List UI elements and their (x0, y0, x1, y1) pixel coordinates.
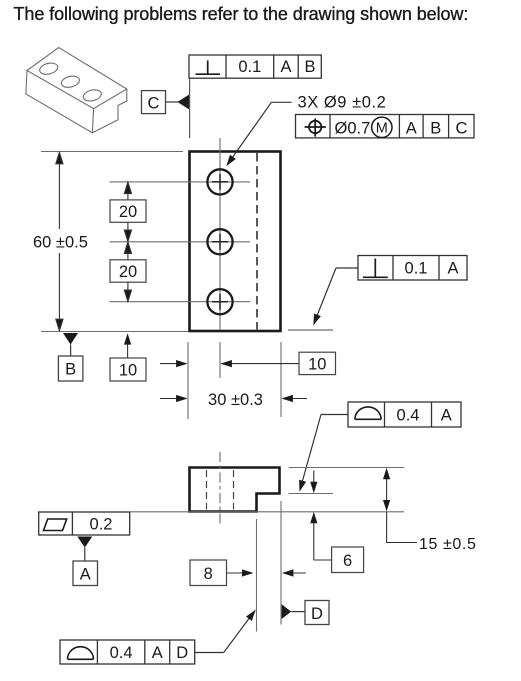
dimension 30 ±0.3 (160, 391, 307, 409)
hole 1 (207, 169, 232, 194)
dimension 20 (lower) box (110, 260, 146, 282)
bottom surface extension line (datum A) (130, 511, 404, 513)
svg-text:15 ±0.5: 15 ±0.5 (419, 536, 476, 553)
top surface extension line (289, 467, 404, 469)
dimension 6 step-height arrows (310, 471, 331, 561)
title text (14, 4, 469, 24)
feature control frame FCF3: perpendicularity 0.1 A (right) (358, 256, 467, 281)
extension line from left edge up to FCF1 (189, 78, 191, 138)
svg-text:D: D (176, 644, 188, 662)
front view outline (190, 152, 281, 332)
feature control frame FCF5: flatness 0.2 (39, 512, 130, 535)
feature control frame FCF4: profile of a surface 0.4 A (348, 402, 461, 427)
svg-text:20: 20 (119, 263, 137, 281)
FCF3 leader to bottom surface extension (288, 268, 358, 330)
top extension line (41, 151, 183, 153)
extension lines below front view (188, 342, 281, 419)
hidden line (notch edge) (256, 153, 258, 330)
svg-text:0.1: 0.1 (405, 260, 428, 278)
svg-text:M: M (376, 121, 388, 137)
svg-text:The following problems refer t: The following problems refer to the draw… (14, 4, 469, 24)
dimension 60 ±0.5 (56, 152, 63, 330)
bottom extension line (datum B surface) (41, 331, 188, 333)
feature control frame FCF2: position Ø0.7 (M) A B C (296, 115, 475, 138)
hole 3 (207, 289, 232, 314)
svg-text:10: 10 (119, 362, 137, 380)
dimension 10 (hole offset) (160, 352, 336, 374)
FCF4 leader to step surface (299, 415, 348, 492)
svg-text:A: A (447, 260, 458, 278)
hole 2 (207, 229, 232, 254)
hidden hole lines in side view (207, 470, 234, 510)
datum A symbol (73, 537, 98, 586)
svg-text:A: A (441, 407, 452, 425)
dimension 6 box (332, 547, 364, 573)
dimension 8 box with arrows (190, 560, 306, 586)
svg-text:Ø0.7: Ø0.7 (335, 120, 371, 138)
dimension 10 (bottom-left) box (110, 333, 146, 381)
datum C symbol (142, 91, 190, 114)
svg-text:A: A (280, 58, 291, 76)
svg-text:20: 20 (119, 203, 137, 221)
svg-text:6: 6 (343, 552, 352, 570)
side view centerline (219, 452, 221, 527)
svg-text:10: 10 (308, 356, 326, 374)
svg-text:8: 8 (204, 565, 213, 583)
isometric pictorial view of part (26, 48, 127, 133)
datum B symbol (58, 333, 83, 381)
extension lines below side view (257, 501, 282, 632)
svg-text:0.4: 0.4 (397, 407, 420, 425)
svg-text:B: B (304, 58, 315, 76)
svg-text:D: D (311, 605, 323, 623)
note 3X Ø9 ±0.2 with leader (226, 94, 386, 167)
FCF6 leader to notch edge extension (195, 610, 256, 653)
feature control frame FCF6: profile of a surface 0.4 A D (60, 640, 195, 664)
feature control frame FCF1: perpendicularity 0.1 A B (189, 55, 321, 78)
svg-text:C: C (455, 120, 467, 138)
svg-text:B: B (430, 120, 441, 138)
datum D symbol (282, 601, 329, 625)
dimension 15 ±0.5 (383, 468, 476, 553)
vertical hole centerline (219, 138, 221, 378)
side view outline (190, 468, 280, 512)
svg-text:0.1: 0.1 (238, 58, 261, 76)
hole row centerlines (110, 182, 251, 302)
svg-text:30 ±0.3: 30 ±0.3 (208, 391, 263, 409)
svg-text:C: C (148, 95, 160, 113)
svg-text:A: A (152, 644, 163, 662)
20-dim arrows chain (124, 182, 131, 301)
svg-text:B: B (65, 361, 76, 379)
dimension 20 (upper) box (110, 200, 146, 222)
svg-text:0.4: 0.4 (110, 644, 133, 662)
step surface extension line (289, 493, 333, 495)
svg-text:A: A (406, 120, 417, 138)
svg-text:A: A (80, 566, 91, 584)
svg-text:3X Ø9 ±0.2: 3X Ø9 ±0.2 (298, 94, 387, 112)
svg-text:0.2: 0.2 (90, 516, 113, 534)
svg-text:60 ±0.5: 60 ±0.5 (33, 234, 88, 252)
